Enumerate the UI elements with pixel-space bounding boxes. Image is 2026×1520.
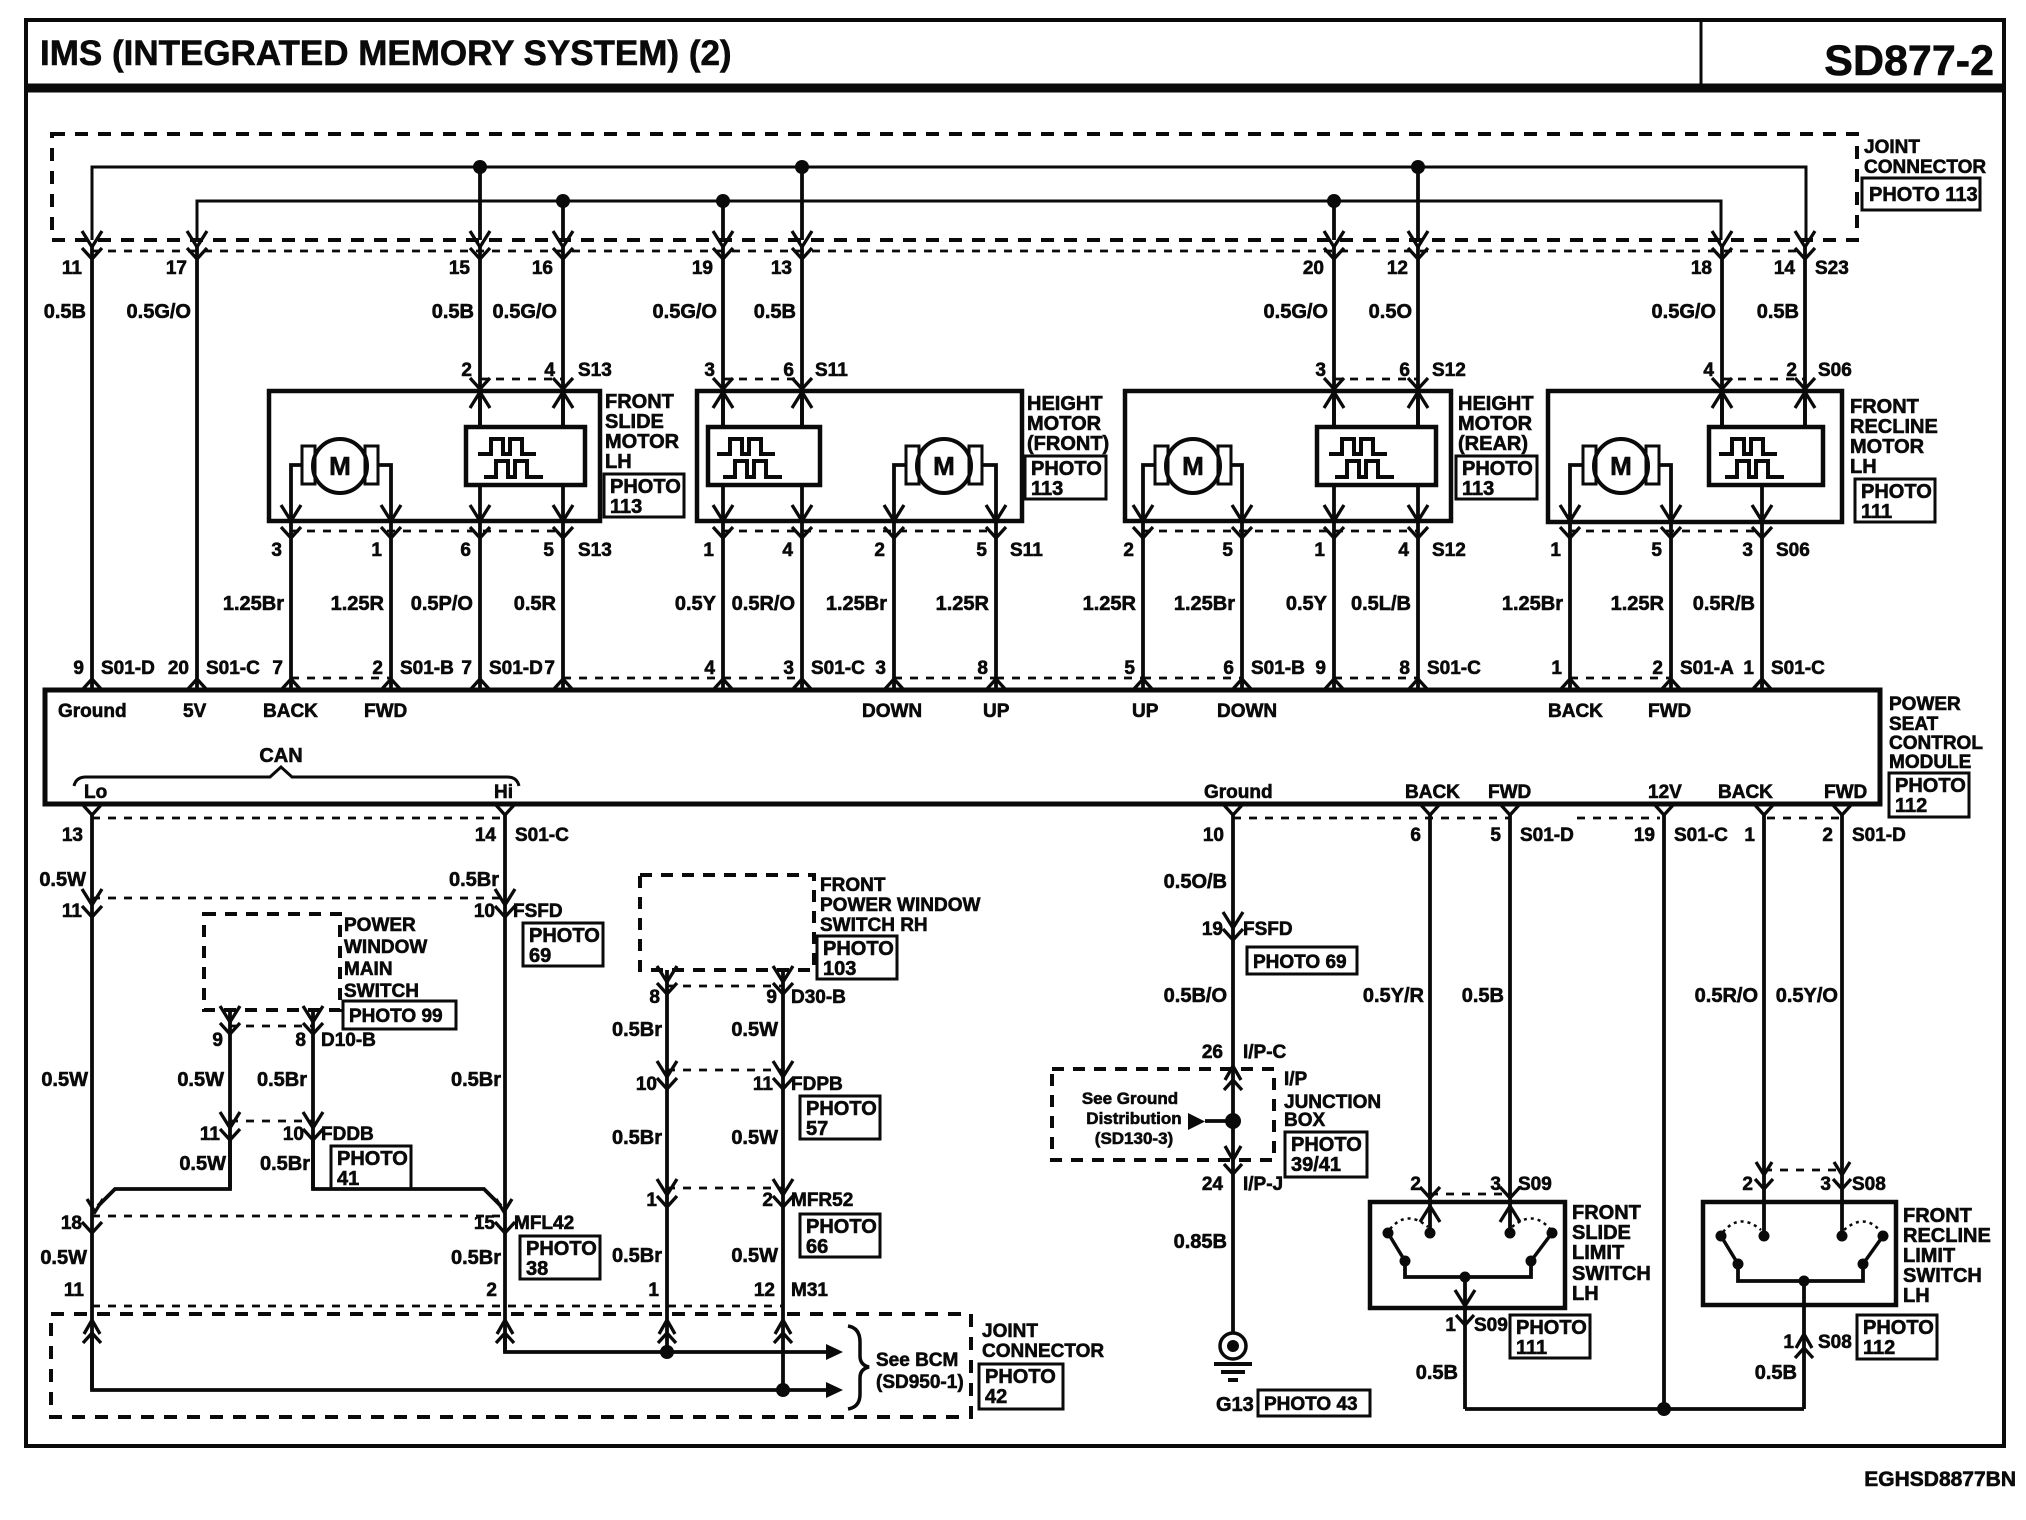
svg-text:11: 11 xyxy=(62,258,83,279)
joint connector entry chevron x667 xyxy=(659,1320,675,1334)
wire S23 to S13 x480 xyxy=(478,244,482,427)
svg-text:PHOTO: PHOTO xyxy=(529,925,600,947)
box2 bottom arrow x894 xyxy=(884,505,904,521)
svg-text:11: 11 xyxy=(64,1280,85,1301)
box2 bottom arrow x802 xyxy=(792,505,812,521)
svg-text:MFL42: MFL42 xyxy=(514,1213,574,1234)
height motor rear box xyxy=(1125,391,1451,521)
box2 bottom arrow x996 xyxy=(986,505,1006,521)
box1 bottom arrow x563 xyxy=(553,505,573,521)
photo box PHOTO 113 height rear xyxy=(1456,456,1537,499)
svg-text:M: M xyxy=(933,451,955,481)
svg-text:LH: LH xyxy=(605,451,632,473)
junction dot B3 xyxy=(1327,194,1341,208)
encoder top wires front recline xyxy=(1720,391,1724,427)
svg-text:12: 12 xyxy=(754,1280,775,1301)
svg-text:2: 2 xyxy=(762,1190,773,1211)
connector FDDB pin 10 xyxy=(303,1112,323,1128)
svg-text:CONTROL: CONTROL xyxy=(1889,733,1983,754)
svg-text:See BCM: See BCM xyxy=(876,1350,958,1371)
bus wire A xyxy=(92,167,1806,240)
svg-text:5: 5 xyxy=(1651,540,1662,561)
connector D30-B dashed xyxy=(667,985,783,988)
box3 bottom arrow x1143 xyxy=(1133,505,1153,521)
svg-text:0.5Br: 0.5Br xyxy=(260,1153,310,1175)
title separator bar xyxy=(26,84,2004,93)
svg-text:1: 1 xyxy=(1314,540,1325,561)
motor M circle front slide xyxy=(313,439,367,493)
svg-text:FDPB: FDPB xyxy=(791,1074,843,1095)
svg-text:11: 11 xyxy=(200,1124,221,1145)
motor brush tabs height front xyxy=(906,446,919,484)
connector S09 pin 2 entry xyxy=(1420,1187,1440,1198)
svg-text:S08: S08 xyxy=(1818,1332,1852,1353)
box1 bottom arrow x291 xyxy=(281,505,301,521)
svg-text:BOX: BOX xyxy=(1284,1110,1326,1131)
svg-text:BACK: BACK xyxy=(1548,701,1603,722)
svg-text:112: 112 xyxy=(1863,1337,1895,1359)
wire to module x1143 xyxy=(1141,521,1145,690)
svg-text:S01-C: S01-C xyxy=(1674,825,1728,846)
slide switch lever left xyxy=(1388,1233,1405,1261)
height motor front box xyxy=(697,391,1022,521)
connector MFL42 pin 18 xyxy=(82,1222,102,1233)
connector S13 bottom pin 1 xyxy=(381,527,401,538)
motor wire right front slide xyxy=(378,465,391,519)
motor brush tabs front slide xyxy=(302,446,315,484)
svg-text:SD877-2: SD877-2 xyxy=(1824,37,1994,85)
ground run wire xyxy=(1465,1407,1804,1411)
wire to module x1242 xyxy=(1240,521,1244,690)
svg-text:0.5Y: 0.5Y xyxy=(675,593,717,615)
recline switch lever right xyxy=(1863,1236,1883,1264)
motor wire left front slide xyxy=(291,465,302,519)
svg-text:SEAT: SEAT xyxy=(1889,714,1939,735)
motor brush tabs height rear xyxy=(1155,446,1168,484)
svg-text:S11: S11 xyxy=(815,360,848,381)
svg-text:3: 3 xyxy=(875,658,886,679)
encoder bottom wires height front xyxy=(721,485,725,519)
svg-text:2: 2 xyxy=(372,658,383,679)
svg-text:M: M xyxy=(329,451,351,481)
photo box PHOTO 38 MFL42 xyxy=(520,1236,600,1279)
svg-text:13: 13 xyxy=(771,258,792,279)
svg-text:CONNECTOR: CONNECTOR xyxy=(982,1341,1104,1362)
photo box PHOTO 112 module xyxy=(1889,773,1969,817)
svg-text:SLIDE: SLIDE xyxy=(1572,1222,1631,1244)
svg-text:0.5W: 0.5W xyxy=(731,1127,778,1149)
svg-text:PHOTO 43: PHOTO 43 xyxy=(1264,1394,1358,1415)
svg-text:1: 1 xyxy=(1550,540,1561,561)
joint connector entry chevron x92 xyxy=(84,1320,100,1334)
connector S06 bottom dashed xyxy=(1570,530,1762,533)
svg-text:I/P-J: I/P-J xyxy=(1243,1174,1283,1195)
svg-text:7: 7 xyxy=(272,658,283,679)
module bottom dashed S01-C left xyxy=(92,817,505,820)
connector FDDB pin 11 xyxy=(220,1112,240,1128)
svg-text:FSFD: FSFD xyxy=(1243,919,1293,940)
svg-text:S01-C: S01-C xyxy=(811,658,865,679)
svg-text:6: 6 xyxy=(460,540,471,561)
svg-text:1: 1 xyxy=(648,1280,659,1301)
svg-text:S01-C: S01-C xyxy=(1427,658,1481,679)
svg-text:5: 5 xyxy=(1222,540,1233,561)
BCM arrow bottom xyxy=(826,1382,843,1398)
svg-text:PHOTO: PHOTO xyxy=(823,938,894,960)
svg-text:8: 8 xyxy=(295,1030,306,1051)
svg-text:10: 10 xyxy=(474,901,495,922)
box2 bottom arrow x723 xyxy=(713,505,733,521)
slide switch dotted arc left xyxy=(1390,1218,1428,1229)
bus drop wire to pin 15 xyxy=(478,167,482,240)
svg-text:S01-A: S01-A xyxy=(1680,658,1734,679)
connector MFL42 dashed xyxy=(92,1215,505,1218)
svg-text:113: 113 xyxy=(1462,478,1494,500)
svg-text:I/P: I/P xyxy=(1284,1069,1308,1090)
joint connector entry chevron x505 xyxy=(497,1320,513,1334)
svg-text:0.5G/O: 0.5G/O xyxy=(493,301,557,323)
svg-text:15: 15 xyxy=(449,258,471,279)
svg-text:7: 7 xyxy=(461,658,472,679)
svg-text:PHOTO 99: PHOTO 99 xyxy=(349,1006,443,1027)
svg-text:MOTOR: MOTOR xyxy=(1458,413,1533,435)
svg-text:112: 112 xyxy=(1895,795,1927,817)
wire Lo to BCM xyxy=(92,1333,826,1390)
junction dot A2 xyxy=(795,160,809,174)
slide switch contacts xyxy=(1383,1228,1394,1239)
svg-text:JOINT: JOINT xyxy=(982,1321,1038,1342)
svg-text:PHOTO: PHOTO xyxy=(526,1238,597,1260)
wire module BACK to S09-2 xyxy=(1428,815,1432,1233)
encoder bottom wires height rear xyxy=(1332,485,1336,519)
encoder top wires height rear xyxy=(1332,391,1336,427)
connector S13 top dashed xyxy=(480,378,563,381)
svg-text:JOINT: JOINT xyxy=(1864,137,1920,158)
slide switch lever right xyxy=(1531,1233,1552,1261)
connector S23 pin 16 symbol xyxy=(553,231,573,247)
svg-text:LIMIT: LIMIT xyxy=(1572,1242,1624,1264)
wire S23 to S13 x563 xyxy=(561,244,565,427)
svg-text:S23: S23 xyxy=(1815,258,1849,279)
svg-text:0.5R/O: 0.5R/O xyxy=(1695,985,1758,1007)
svg-text:24: 24 xyxy=(1202,1174,1224,1195)
junction dot 12V ground run xyxy=(1657,1402,1671,1416)
svg-text:111: 111 xyxy=(1861,501,1892,523)
svg-text:8: 8 xyxy=(977,658,988,679)
svg-text:BACK: BACK xyxy=(263,701,318,722)
svg-text:SWITCH RH: SWITCH RH xyxy=(820,915,928,936)
connector S23 pin 12 symbol xyxy=(1408,231,1428,247)
svg-text:PHOTO: PHOTO xyxy=(1895,775,1966,797)
wire to module x723 xyxy=(721,521,725,690)
wire D30-B 9 down xyxy=(781,970,785,1390)
wire pin17 to module 5V xyxy=(195,244,199,690)
encoder waveform xyxy=(717,439,775,454)
svg-text:Distribution: Distribution xyxy=(1086,1109,1181,1128)
front recline motor LH box xyxy=(1548,391,1842,522)
wire CAN Lo down xyxy=(90,815,94,1390)
svg-text:1: 1 xyxy=(371,540,382,561)
svg-text:See Ground: See Ground xyxy=(1082,1089,1178,1108)
svg-text:SWITCH: SWITCH xyxy=(344,981,419,1002)
wire D30-B 8 down xyxy=(665,970,669,1352)
svg-text:0.5O: 0.5O xyxy=(1369,301,1412,323)
svg-text:PHOTO 113: PHOTO 113 xyxy=(1869,184,1978,206)
front recline limit switch box xyxy=(1703,1202,1896,1305)
svg-text:POWER: POWER xyxy=(1889,694,1961,715)
svg-text:1: 1 xyxy=(1744,825,1755,846)
svg-text:3: 3 xyxy=(271,540,282,561)
svg-text:PHOTO: PHOTO xyxy=(806,1098,877,1120)
svg-text:18: 18 xyxy=(61,1213,82,1234)
wire module Ground down xyxy=(1231,815,1235,1334)
connector S09 pin 3 entry xyxy=(1500,1187,1520,1198)
connector S11 bottom dashed xyxy=(723,530,996,533)
connector S11 bottom pin 2 xyxy=(884,527,904,538)
photo box PHOTO 57 FDPB xyxy=(800,1096,880,1139)
svg-text:3: 3 xyxy=(1742,540,1753,561)
BCM arrow top xyxy=(826,1344,843,1360)
encoder box front recline xyxy=(1709,427,1823,485)
photo box PHOTO 111 slide xyxy=(1510,1315,1590,1358)
connector S13 bottom pin 5 xyxy=(553,527,573,538)
connector S12 top dashed xyxy=(1334,378,1418,381)
svg-text:1: 1 xyxy=(703,540,714,561)
svg-text:9: 9 xyxy=(766,987,777,1008)
junction dot IP xyxy=(1225,1113,1241,1129)
svg-text:SWITCH: SWITCH xyxy=(1903,1265,1982,1287)
svg-text:16: 16 xyxy=(532,258,553,279)
encoder waveform xyxy=(1329,439,1387,454)
connector D30-B pin 8 exit xyxy=(657,966,677,982)
svg-text:DOWN: DOWN xyxy=(862,701,922,722)
slide switch entry arrows xyxy=(1420,1206,1440,1222)
svg-text:0.5Br: 0.5Br xyxy=(451,1247,501,1269)
svg-text:D10-B: D10-B xyxy=(321,1030,376,1051)
svg-text:111: 111 xyxy=(1516,1337,1547,1359)
svg-text:S01-B: S01-B xyxy=(400,658,454,679)
svg-text:9: 9 xyxy=(1315,658,1326,679)
svg-text:13: 13 xyxy=(62,825,83,846)
connector line S23 dashed xyxy=(92,250,1806,253)
svg-text:0.5Br: 0.5Br xyxy=(451,1069,501,1091)
svg-text:PHOTO: PHOTO xyxy=(337,1148,408,1170)
svg-text:0.85B: 0.85B xyxy=(1174,1231,1227,1253)
svg-text:D30-B: D30-B xyxy=(791,987,846,1008)
svg-text:103: 103 xyxy=(823,958,856,980)
connector S12 bottom pin 2 xyxy=(1133,527,1153,538)
svg-text:(SD130-3): (SD130-3) xyxy=(1095,1129,1173,1148)
wire to module x480 xyxy=(478,521,482,690)
svg-text:Ground: Ground xyxy=(58,701,127,722)
encoder bottom wires front slide xyxy=(478,485,482,519)
wire S23 to S06 x1722 xyxy=(1720,244,1724,427)
svg-text:IMS (INTEGRATED MEMORY SYSTEM): IMS (INTEGRATED MEMORY SYSTEM) (2) xyxy=(40,34,732,73)
encoder box height rear xyxy=(1317,427,1436,485)
svg-text:0.5B: 0.5B xyxy=(1416,1362,1458,1384)
box1 bottom arrow x480 xyxy=(470,505,490,521)
BCM brace xyxy=(848,1326,869,1409)
svg-text:0.5B: 0.5B xyxy=(1755,1362,1797,1384)
photo box PHOTO 99 xyxy=(343,1001,456,1029)
svg-text:M: M xyxy=(1182,451,1204,481)
ground symbol G13 xyxy=(1220,1333,1246,1359)
wire to module x802 xyxy=(800,521,804,690)
connector S08 dashed xyxy=(1764,1169,1842,1172)
slide switch dotted arc right xyxy=(1512,1218,1550,1229)
connector S23 pin 14 symbol xyxy=(1795,231,1815,247)
svg-text:CAN: CAN xyxy=(259,745,302,767)
slide switch exit arrow xyxy=(1455,1290,1475,1306)
junction dot M31-1 xyxy=(660,1345,674,1359)
svg-text:10: 10 xyxy=(636,1074,657,1095)
svg-text:20: 20 xyxy=(1303,258,1324,279)
svg-text:20: 20 xyxy=(168,658,189,679)
connector S23 pin 11 symbol xyxy=(82,231,102,247)
motor brush tabs front recline xyxy=(1583,446,1596,484)
ground distribution arrow xyxy=(1188,1113,1205,1130)
svg-text:2: 2 xyxy=(486,1280,497,1301)
photo box PHOTO 69 right xyxy=(1247,947,1357,974)
svg-text:0.5Br: 0.5Br xyxy=(612,1019,662,1041)
svg-text:1: 1 xyxy=(1445,1315,1456,1336)
connector S13 bottom pin 6 xyxy=(470,527,490,538)
motor M circle height front xyxy=(917,439,971,493)
svg-text:0.5B: 0.5B xyxy=(1757,301,1799,323)
bus wire B xyxy=(197,201,1721,240)
module top pin tents xyxy=(82,679,102,690)
svg-text:7: 7 xyxy=(544,658,555,679)
svg-text:CONNECTOR: CONNECTOR xyxy=(1864,157,1986,178)
svg-text:PHOTO: PHOTO xyxy=(1291,1134,1362,1156)
svg-text:PHOTO: PHOTO xyxy=(1516,1317,1587,1339)
svg-text:3: 3 xyxy=(783,658,794,679)
svg-text:0.5G/O: 0.5G/O xyxy=(1264,301,1328,323)
svg-text:2: 2 xyxy=(1123,540,1134,561)
wire S23 to S06 x1805 xyxy=(1803,244,1807,427)
recline switch common wires xyxy=(1738,1264,1863,1281)
svg-text:8: 8 xyxy=(1399,658,1410,679)
svg-text:1.25R: 1.25R xyxy=(331,593,385,615)
svg-text:0.5G/O: 0.5G/O xyxy=(1652,301,1716,323)
svg-text:M: M xyxy=(1610,451,1632,481)
svg-text:19: 19 xyxy=(1202,919,1223,940)
wire to module x1570 xyxy=(1568,521,1572,690)
svg-text:5: 5 xyxy=(1490,825,1501,846)
svg-text:18: 18 xyxy=(1691,258,1712,279)
connector MFR52 pin 1 xyxy=(657,1179,677,1195)
svg-text:0.5W: 0.5W xyxy=(731,1019,778,1041)
svg-text:1: 1 xyxy=(646,1190,657,1211)
svg-text:WINDOW: WINDOW xyxy=(344,937,427,958)
box3 bottom arrow x1334 xyxy=(1324,505,1344,521)
connector S12 bottom pin 5 xyxy=(1232,527,1252,538)
svg-text:0.5G/O: 0.5G/O xyxy=(127,301,191,323)
connector D10-B pin 8 exit xyxy=(303,1006,323,1022)
wire to module x1762 xyxy=(1760,521,1764,690)
box3 bottom arrow x1242 xyxy=(1232,505,1252,521)
svg-text:0.5P/O: 0.5P/O xyxy=(411,593,473,615)
svg-text:UP: UP xyxy=(1132,701,1159,722)
svg-text:PHOTO: PHOTO xyxy=(1861,481,1932,503)
connector S08 pin 2 entry xyxy=(1756,1162,1772,1175)
svg-text:10: 10 xyxy=(283,1124,304,1145)
svg-text:113: 113 xyxy=(1031,478,1063,500)
encoder waveform xyxy=(1719,439,1777,454)
svg-text:PHOTO: PHOTO xyxy=(610,476,681,498)
svg-text:SWITCH: SWITCH xyxy=(1572,1263,1651,1285)
svg-text:LH: LH xyxy=(1572,1283,1599,1305)
motor wire left height front xyxy=(894,465,906,519)
svg-text:S13: S13 xyxy=(578,540,612,561)
svg-text:1.25Br: 1.25Br xyxy=(826,593,887,615)
wire to module x1334 xyxy=(1332,521,1336,690)
M31 dashed line xyxy=(92,1305,783,1308)
wire S23 to S11 x723 xyxy=(721,244,725,427)
connector S13 bottom pin 3 xyxy=(281,527,301,538)
encoder top wires front slide xyxy=(478,391,482,427)
S01 row dashed segments xyxy=(291,677,391,680)
svg-text:UP: UP xyxy=(983,701,1010,722)
wire 12V down xyxy=(1662,815,1666,1409)
svg-text:LH: LH xyxy=(1850,456,1877,478)
connector MFR52 pin 2 xyxy=(773,1179,793,1195)
svg-text:(SD950-1): (SD950-1) xyxy=(876,1372,964,1393)
svg-text:S01-C: S01-C xyxy=(206,658,260,679)
svg-text:38: 38 xyxy=(526,1258,548,1280)
svg-text:9: 9 xyxy=(212,1030,223,1051)
photo box PHOTO 66 MFR52 xyxy=(800,1214,880,1257)
svg-text:HEIGHT: HEIGHT xyxy=(1027,393,1103,415)
svg-text:MOTOR: MOTOR xyxy=(1027,413,1102,435)
svg-text:5: 5 xyxy=(1124,658,1135,679)
svg-text:S12: S12 xyxy=(1432,360,1466,381)
wire to module x894 xyxy=(892,521,896,690)
junction dot M31-12 xyxy=(776,1383,790,1397)
svg-text:FWD: FWD xyxy=(1488,782,1531,803)
wire S23 to S11 x802 xyxy=(800,244,804,427)
svg-text:MOTOR: MOTOR xyxy=(605,431,680,453)
svg-text:4: 4 xyxy=(704,658,715,679)
svg-text:6: 6 xyxy=(1223,658,1234,679)
svg-text:6: 6 xyxy=(1410,825,1421,846)
box4 bottom arrow x1762 xyxy=(1752,505,1772,521)
connector S23 pin 20 symbol xyxy=(1324,231,1344,247)
svg-text:113: 113 xyxy=(610,496,642,518)
svg-text:DOWN: DOWN xyxy=(1217,701,1277,722)
wire to module x1671 xyxy=(1669,521,1673,690)
photo box PHOTO 112 recline xyxy=(1857,1315,1937,1359)
svg-text:2: 2 xyxy=(1410,1174,1421,1195)
motor wire right height rear xyxy=(1231,465,1242,519)
connector S06 top dashed xyxy=(1722,378,1805,381)
svg-text:1: 1 xyxy=(1551,658,1562,679)
front slide limit switch box xyxy=(1370,1202,1565,1308)
svg-text:41: 41 xyxy=(337,1168,359,1190)
svg-text:POWER WINDOW: POWER WINDOW xyxy=(820,895,980,916)
joint connector entry chevron x783 xyxy=(775,1320,791,1334)
connector FDPB dashed xyxy=(667,1069,783,1072)
svg-text:8: 8 xyxy=(649,987,660,1008)
slide switch common wires xyxy=(1405,1261,1531,1277)
svg-text:0.5Y: 0.5Y xyxy=(1286,593,1328,615)
bus drop wire to pin 16 xyxy=(561,201,565,240)
connector S23 pin 13 symbol xyxy=(792,231,812,247)
svg-text:9: 9 xyxy=(73,658,84,679)
junction dot B2 xyxy=(716,194,730,208)
recline switch lever left xyxy=(1721,1236,1738,1264)
svg-text:S06: S06 xyxy=(1776,540,1810,561)
